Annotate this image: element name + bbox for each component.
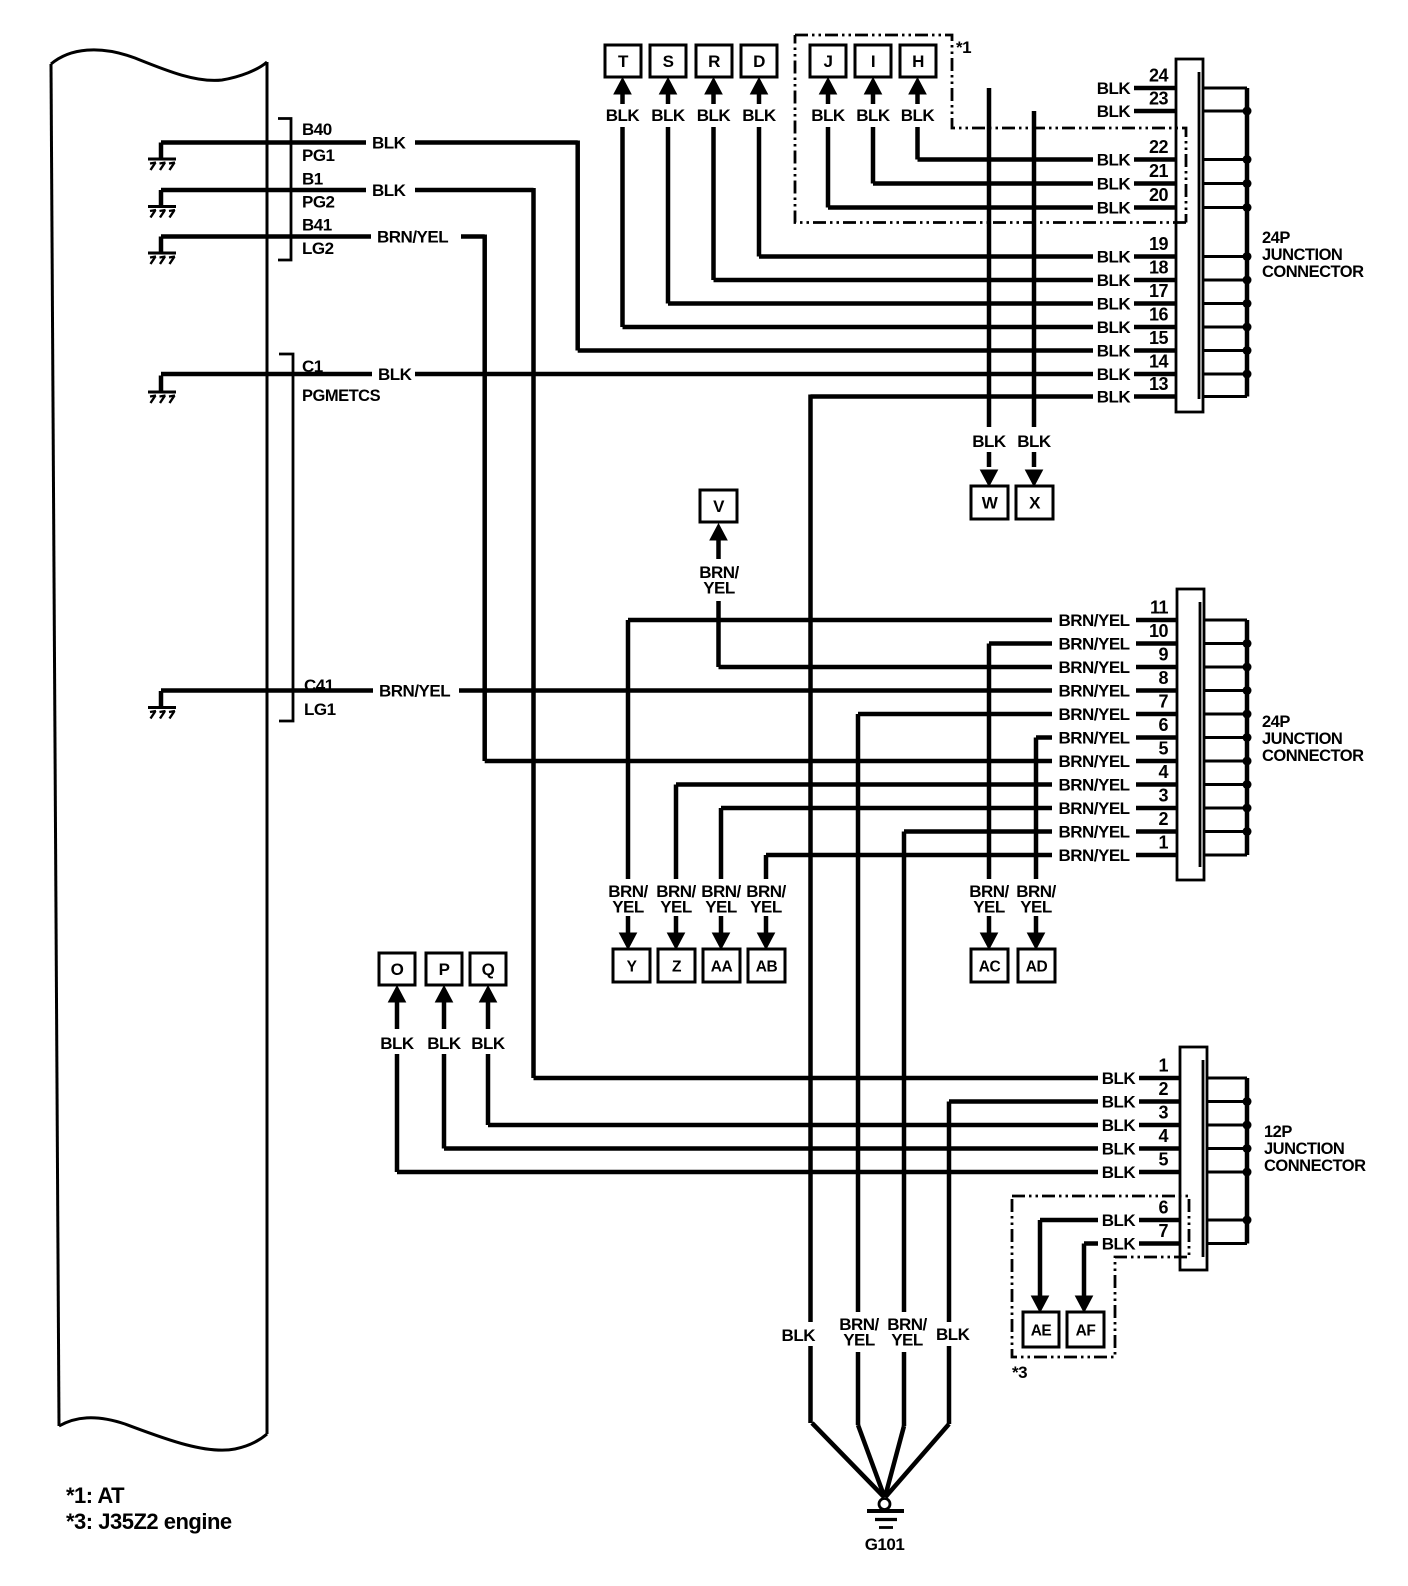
svg-text:YEL: YEL (660, 898, 692, 917)
svg-text:AB: AB (756, 959, 778, 976)
label BLK (J wire) (811, 106, 846, 125)
svg-text:8: 8 (1158, 668, 1168, 688)
svg-text:AA: AA (711, 959, 733, 976)
svg-text:BRN/YEL: BRN/YEL (1058, 705, 1129, 724)
12P junction connector bus comb (1207, 1078, 1252, 1244)
wire S to pin 17 (668, 301, 1093, 306)
24P junction connector 1 body (1176, 59, 1203, 412)
wire drop to Y (626, 620, 631, 933)
svg-text:BLK: BLK (1097, 248, 1132, 267)
svg-text:LG1: LG1 (304, 700, 336, 719)
24P junction connector 1 pin 18 number (1149, 258, 1169, 278)
svg-text:BRN/YEL: BRN/YEL (1058, 611, 1129, 630)
12P junction connector pin 2 number (1158, 1079, 1168, 1099)
24P junction connector 1 pin 16 number (1149, 305, 1169, 325)
svg-text:R: R (708, 52, 720, 71)
svg-text:13: 13 (1149, 374, 1169, 394)
24P junction connector 2 pin 9 number (1158, 645, 1168, 665)
svg-text:BLK: BLK (1097, 318, 1132, 337)
svg-text:BLK: BLK (1097, 199, 1132, 218)
wire drop to AD (1034, 738, 1039, 934)
wire stub + BLK label pin 23 (1097, 102, 1176, 121)
arrow into AB (758, 933, 775, 949)
wire J vertical (826, 127, 831, 208)
wire stub + BLK label 12P pin 2 (1102, 1093, 1180, 1112)
pin label PGMETCS (302, 387, 381, 405)
svg-text:1: 1 (1158, 1056, 1168, 1076)
label BRN/YEL (Z wire) (656, 882, 696, 917)
arrow into AC (981, 933, 998, 949)
svg-text:4: 4 (1158, 762, 1168, 782)
svg-text:P: P (439, 960, 450, 979)
svg-text:5: 5 (1158, 739, 1168, 759)
arrow into AE (1032, 1296, 1049, 1312)
wire drop to AA (719, 808, 724, 933)
svg-text:BRN/YEL: BRN/YEL (1058, 752, 1129, 771)
svg-text:BLK: BLK (1102, 1069, 1137, 1088)
svg-text:JUNCTION: JUNCTION (1262, 246, 1342, 264)
svg-text:PGMETCS: PGMETCS (302, 387, 381, 405)
wire drop to AB (764, 855, 769, 933)
pin label B1 (302, 170, 323, 189)
12P junction connector pin 5 number (1158, 1150, 1168, 1170)
connector box O (379, 953, 415, 985)
wire pin23 to X (1032, 111, 1037, 467)
arrow into R (705, 78, 722, 104)
wire R vertical (711, 127, 716, 280)
ground symbol (B1/PG2) (148, 190, 176, 218)
12P junction connector pin 3 number (1158, 1103, 1168, 1123)
wire P vertical (442, 1054, 447, 1149)
svg-text:B40: B40 (302, 120, 332, 139)
wire B41 vertical drop (482, 235, 487, 762)
svg-text:24P: 24P (1262, 713, 1290, 731)
connector box H (900, 45, 936, 77)
24P junction connector 1 pin 17 number (1149, 281, 1169, 301)
svg-text:G101: G101 (865, 1535, 905, 1554)
wire O to 12P (397, 1170, 1098, 1175)
dash-dot enclosure *1 (AT) (795, 35, 1186, 223)
svg-text:BRN/YEL: BRN/YEL (1058, 846, 1129, 865)
arrow into D (751, 78, 768, 104)
wire pin 3 run (721, 806, 1052, 811)
svg-text:T: T (618, 52, 629, 71)
pin label B41 (302, 216, 332, 235)
svg-text:B41: B41 (302, 216, 332, 235)
wire C1 BLK (161, 372, 1093, 377)
label G101 (865, 1535, 905, 1554)
svg-text:BLK: BLK (901, 106, 936, 125)
label BRN/YEL (AD wire) (1016, 882, 1056, 917)
wire pin24 to W (987, 88, 992, 467)
wire J to pin 20 (828, 205, 1093, 210)
svg-text:AF: AF (1076, 1323, 1096, 1340)
wire pin 2 run (904, 829, 1052, 834)
svg-text:BLK: BLK (697, 106, 732, 125)
wire stub + BLK label pin 18 (1097, 271, 1176, 290)
wire stub + BLK label pin 22 (1097, 151, 1176, 170)
svg-text:BRN/YEL: BRN/YEL (1058, 729, 1129, 748)
label BLK (C1) (378, 365, 413, 384)
label BLK (W wire) (972, 432, 1007, 451)
arrow into S (660, 78, 677, 104)
wire B1 BLK (ground to bend) (161, 188, 534, 193)
svg-text:BRN/YEL: BRN/YEL (1058, 799, 1129, 818)
wire B41 to 24P-2 pin 5 (485, 759, 1052, 764)
arrow into AF (1076, 1296, 1093, 1312)
wire C41 BRN/YEL (161, 688, 1052, 693)
svg-text:BLK: BLK (427, 1034, 462, 1053)
svg-text:BLK: BLK (856, 106, 891, 125)
wire stub + BLK label pin 21 (1097, 175, 1176, 194)
svg-text:YEL: YEL (750, 898, 782, 917)
connector box AE (1023, 1312, 1059, 1347)
arrow into V (710, 524, 727, 559)
wire pin 4 run (676, 782, 1052, 787)
24P junction connector 1 pin 24 number (1149, 66, 1169, 86)
ground symbol (C41/LG1) (148, 691, 176, 719)
connector box AA (703, 949, 740, 982)
bracket C1..LG1 (279, 354, 293, 721)
12P junction connector pin 7 number (1158, 1221, 1168, 1241)
wire stub + BLK label pin 14 (1097, 365, 1176, 384)
wire R to pin 18 (714, 278, 1094, 283)
svg-text:BLK: BLK (1102, 1116, 1137, 1135)
label BRN/YEL (G101 wire 2) (839, 1315, 879, 1350)
svg-text:BLK: BLK (1097, 79, 1132, 98)
svg-text:BRN/YEL: BRN/YEL (377, 228, 448, 247)
wire pin 1 run (766, 853, 1052, 858)
label BRN/YEL (G101 wire 3) (887, 1315, 927, 1350)
wire pin 11 run (628, 618, 1052, 623)
arrow into T (614, 78, 631, 104)
wire B41 BRN/YEL (ground to bend) (161, 234, 485, 239)
connector box W (971, 486, 1008, 519)
svg-text:CONNECTOR: CONNECTOR (1262, 747, 1364, 765)
label BLK (B1) (372, 181, 407, 200)
24P junction connector 1 pin 22 number (1149, 137, 1169, 157)
svg-text:1: 1 (1158, 833, 1168, 853)
ground symbol (B40/PG1) (148, 143, 176, 171)
svg-text:BLK: BLK (742, 106, 777, 125)
svg-text:BLK: BLK (1102, 1093, 1137, 1112)
svg-text:19: 19 (1149, 234, 1169, 254)
wire stub + BLK label pin 16 (1097, 318, 1176, 337)
arrow into I (865, 78, 882, 104)
pin label B40 (302, 120, 332, 139)
wire stub + BRN/YEL label pin 10 (conn2) (1058, 635, 1177, 654)
svg-text:BLK: BLK (936, 1325, 971, 1344)
24P junction connector 2 pin 2 number (1158, 809, 1168, 829)
ground G101 symbol (867, 1499, 904, 1528)
svg-text:BLK: BLK (372, 181, 407, 200)
wire D to pin 19 (759, 254, 1093, 259)
12P junction connector pin 6 number (1158, 1198, 1168, 1218)
wire stub + BLK label pin 17 (1097, 295, 1176, 314)
svg-text:BLK: BLK (372, 134, 407, 153)
svg-text:15: 15 (1149, 328, 1169, 348)
svg-text:11: 11 (1150, 598, 1169, 618)
svg-text:22: 22 (1149, 137, 1169, 157)
svg-text:YEL: YEL (1020, 898, 1052, 917)
svg-text:9: 9 (1158, 645, 1168, 665)
svg-text:4: 4 (1158, 1126, 1168, 1146)
24P junction connector 2 pin 4 number (1158, 762, 1168, 782)
svg-text:3: 3 (1158, 786, 1168, 806)
svg-text:BLK: BLK (1097, 295, 1132, 314)
svg-text:V: V (713, 497, 725, 516)
bracket B40..LG2 (278, 119, 291, 261)
svg-text:2: 2 (1158, 809, 1168, 829)
wire stub + BRN/YEL label pin 1 (conn2) (1058, 846, 1177, 865)
wire H to pin 22 (918, 157, 1094, 162)
svg-text:BLK: BLK (811, 106, 846, 125)
ground symbol (B41/LG2) (148, 237, 176, 265)
label BLK (P wire) (427, 1034, 462, 1053)
label BLK (B40) (372, 134, 407, 153)
wire O vertical (395, 1054, 400, 1172)
svg-text:18: 18 (1149, 258, 1169, 278)
connector box R (696, 45, 732, 77)
24P junction connector 2 pin 5 number (1158, 739, 1168, 759)
svg-text:*3: J35Z2 engine: *3: J35Z2 engine (66, 1509, 232, 1534)
arrow into P (436, 986, 453, 1029)
wire S vertical (666, 127, 671, 304)
label 24P JUNCTION CONNECTOR (middle) (1262, 713, 1364, 765)
wire pin 6 run (1036, 735, 1052, 740)
svg-text:6: 6 (1158, 1198, 1168, 1218)
connector box X (1016, 486, 1053, 519)
svg-text:CONNECTOR: CONNECTOR (1262, 263, 1364, 281)
svg-text:*1: AT: *1: AT (66, 1483, 125, 1508)
svg-text:BLK: BLK (1102, 1235, 1137, 1254)
connector box Y (613, 949, 650, 982)
wire 12P pin 7 run (1084, 1241, 1098, 1246)
24P junction connector 2 pin 1 number (1158, 833, 1168, 853)
pin label C41 (304, 676, 334, 695)
svg-text:*3: *3 (1012, 1363, 1027, 1382)
svg-text:BLK: BLK (378, 365, 413, 384)
wire B40 vertical drop (575, 141, 580, 351)
svg-text:Z: Z (672, 959, 682, 976)
svg-text:24: 24 (1149, 66, 1169, 86)
svg-text:10: 10 (1149, 621, 1169, 641)
arrow into X (1026, 470, 1043, 486)
wire D vertical (757, 127, 762, 257)
svg-text:AE: AE (1031, 1323, 1052, 1340)
svg-text:2: 2 (1158, 1079, 1168, 1099)
label BRN/YEL (AC wire) (969, 882, 1009, 917)
label BLK (T wire) (606, 106, 641, 125)
24P junction connector 2 body (1177, 589, 1204, 880)
svg-text:Q: Q (482, 960, 495, 979)
svg-text:I: I (871, 52, 875, 71)
svg-text:BRN/YEL: BRN/YEL (1058, 682, 1129, 701)
wire 24P-2 pin7 drop (BRN/YEL) (856, 714, 861, 1425)
svg-text:5: 5 (1158, 1150, 1168, 1170)
wire stub + BRN/YEL label pin 4 (conn2) (1058, 776, 1177, 795)
svg-text:7: 7 (1158, 1221, 1168, 1241)
24P junction connector 1 pin 23 number (1149, 89, 1169, 109)
pin label C1 (302, 357, 323, 376)
label BLK (G101 wire 1) (782, 1326, 817, 1345)
pin label LG1 (304, 700, 336, 719)
footnote *3: J35Z2 engine (66, 1509, 232, 1534)
wire H vertical (915, 127, 920, 160)
wire stub + BRN/YEL label pin 3 (conn2) (1058, 799, 1177, 818)
arrow into AD (1028, 933, 1045, 949)
24P junction connector 2 pin 10 number (1149, 621, 1169, 641)
connector box T (605, 45, 641, 77)
wire stub + BLK label pin 19 (1097, 248, 1176, 267)
wire harness (engine wire bundle) (51, 50, 267, 1450)
label BRN/YEL (AB wire) (746, 882, 786, 917)
24P junction connector 1 pin 21 number (1149, 161, 1169, 181)
funnel wires to G101 (812, 1423, 949, 1497)
wire stub + BLK label 12P pin 7 (1102, 1235, 1180, 1254)
svg-text:YEL: YEL (973, 898, 1005, 917)
wire stub + BLK label pin 13 (1097, 388, 1176, 407)
wire stub + BLK label pin 24 (1097, 79, 1176, 98)
wire stub + BRN/YEL label pin 7 (conn2) (1058, 705, 1177, 724)
svg-text:LG2: LG2 (302, 239, 334, 258)
label BLK (O wire) (380, 1034, 415, 1053)
arrow into Z (668, 933, 685, 949)
connector box AC (971, 949, 1008, 982)
svg-text:O: O (391, 960, 404, 979)
svg-text:YEL: YEL (612, 898, 644, 917)
wire 12P pin 6 run (1040, 1218, 1098, 1223)
svg-text:BLK: BLK (972, 432, 1007, 451)
svg-text:BLK: BLK (1102, 1163, 1137, 1182)
label *3 (1012, 1363, 1027, 1382)
label BLK (X wire) (1017, 432, 1052, 451)
svg-text:16: 16 (1149, 305, 1169, 325)
svg-text:3: 3 (1158, 1103, 1168, 1123)
24P junction connector 1 pin 20 number (1149, 185, 1169, 205)
svg-text:BRN/YEL: BRN/YEL (1058, 776, 1129, 795)
connector box Q (470, 953, 506, 985)
wire B1 vertical drop (531, 188, 536, 1078)
24P junction connector 2 pin 7 number (1158, 692, 1168, 712)
svg-text:BLK: BLK (1097, 388, 1132, 407)
label BLK (R wire) (697, 106, 732, 125)
wire stub + BRN/YEL label pin 8 (conn2) (1058, 682, 1177, 701)
svg-text:YEL: YEL (891, 1331, 923, 1350)
svg-text:BRN/YEL: BRN/YEL (1058, 658, 1129, 677)
svg-text:JUNCTION: JUNCTION (1264, 1140, 1344, 1158)
24P junction connector 2 bus comb (1204, 620, 1252, 855)
svg-text:BRN/YEL: BRN/YEL (1058, 823, 1129, 842)
svg-text:7: 7 (1158, 692, 1168, 712)
ground symbol (C1/PGMETCS) (148, 376, 176, 404)
wire stub + BLK label 12P pin 4 (1102, 1140, 1180, 1159)
wire pin13 to conn1 (811, 394, 1094, 399)
svg-text:BLK: BLK (1102, 1140, 1137, 1159)
svg-text:BLK: BLK (1097, 175, 1132, 194)
svg-text:B1: B1 (302, 170, 323, 189)
label BLK (H wire) (901, 106, 936, 125)
svg-text:*1: *1 (956, 38, 971, 57)
connector box S (650, 45, 686, 77)
pin label PG1 (302, 146, 335, 165)
wire V to 24P-2 pin 9 (719, 665, 1053, 670)
arrow into Q (480, 986, 497, 1029)
svg-text:BLK: BLK (1017, 432, 1052, 451)
wire I vertical (871, 127, 876, 184)
svg-text:YEL: YEL (703, 579, 735, 598)
svg-text:6: 6 (1158, 715, 1168, 735)
24P junction connector 2 pin 6 number (1158, 715, 1168, 735)
12P junction connector pin 4 number (1158, 1126, 1168, 1146)
svg-text:20: 20 (1149, 185, 1169, 205)
connector box AF (1067, 1312, 1104, 1347)
label BLK (I wire) (856, 106, 891, 125)
wire I to pin 21 (873, 181, 1093, 186)
24P junction connector 1 pin 14 number (1149, 352, 1169, 372)
wire 12P pin2 drop (BLK) (947, 1102, 952, 1425)
wire pin 10 run (989, 641, 1052, 646)
label BRN/YEL (B41) (377, 228, 448, 247)
wire P to 12P (444, 1146, 1098, 1151)
label BRN/YEL (AA wire) (701, 882, 741, 917)
wire T vertical (620, 127, 625, 327)
svg-text:BRN/YEL: BRN/YEL (1058, 635, 1129, 654)
svg-text:BLK: BLK (1102, 1211, 1137, 1230)
24P junction connector 1 pin 13 number (1149, 374, 1169, 394)
svg-text:BLK: BLK (471, 1034, 506, 1053)
svg-text:BLK: BLK (1097, 151, 1132, 170)
wire stub + BLK label pin 20 (1097, 199, 1176, 218)
arrow into O (389, 986, 406, 1029)
wire drop to AE (1038, 1220, 1043, 1296)
12P junction connector body (1180, 1047, 1207, 1270)
arrow into Y (620, 933, 637, 949)
wire 24P-2 pin2 drop (BRN/YEL) (902, 832, 907, 1427)
svg-text:24P: 24P (1262, 229, 1290, 247)
wire B1 to 12P pin 1 (534, 1076, 1099, 1081)
connector box V (700, 490, 737, 522)
footnote *1: AT (66, 1483, 125, 1508)
connector box Z (658, 949, 695, 982)
wire stub + BLK label 12P pin 3 (1102, 1116, 1180, 1135)
wire drop to Z (674, 785, 679, 934)
label BRN/YEL (C41) (379, 682, 450, 701)
label 24P JUNCTION CONNECTOR (top) (1262, 229, 1364, 281)
svg-text:S: S (663, 52, 674, 71)
svg-text:BLK: BLK (782, 1326, 817, 1345)
12P junction connector pin 1 number (1158, 1056, 1168, 1076)
svg-text:YEL: YEL (705, 898, 737, 917)
wire Q to 12P (488, 1123, 1098, 1128)
label BLK (S wire) (651, 106, 686, 125)
wire stub + BRN/YEL label pin 2 (conn2) (1058, 823, 1177, 842)
svg-text:BLK: BLK (1097, 271, 1132, 290)
svg-text:14: 14 (1149, 352, 1169, 372)
wire stub + BRN/YEL label pin 11 (conn2) (1058, 611, 1177, 630)
svg-text:Y: Y (627, 959, 638, 976)
wire pin13 drop (BLK) (808, 395, 813, 1424)
svg-text:PG1: PG1 (302, 146, 335, 165)
svg-text:D: D (753, 52, 765, 71)
pin label PG2 (302, 193, 335, 212)
svg-text:BLK: BLK (651, 106, 686, 125)
svg-text:17: 17 (1149, 281, 1169, 301)
svg-text:21: 21 (1149, 161, 1169, 181)
arrow into AA (713, 933, 730, 949)
svg-text:AC: AC (979, 959, 1001, 976)
wire stub + BLK label 12P pin 1 (1102, 1069, 1180, 1088)
